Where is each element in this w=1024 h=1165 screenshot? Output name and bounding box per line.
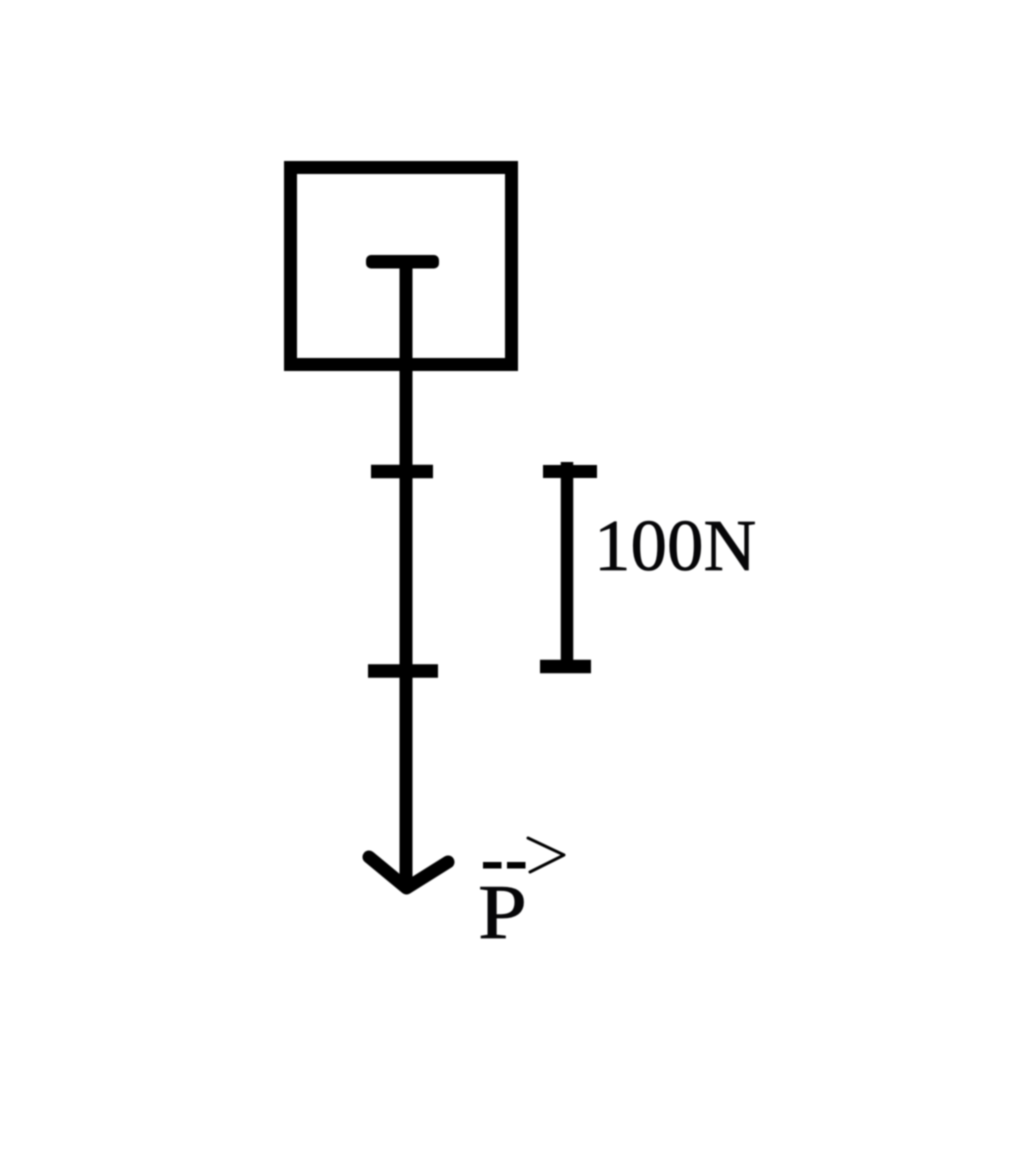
- tick mark 2: [368, 664, 438, 678]
- vector dash 2 over P: [507, 862, 526, 869]
- vector arrow tip over P: [528, 838, 564, 872]
- tick mark 1: [371, 465, 433, 479]
- string (vertical shaft): [400, 262, 413, 886]
- scale bar bottom cap: [540, 660, 591, 674]
- arrowhead: [369, 857, 448, 888]
- scale bar top cap: [543, 465, 597, 478]
- box (mass block): [291, 168, 512, 365]
- svg-text:100N: 100N: [594, 505, 756, 586]
- hook bar inside box: [366, 255, 439, 269]
- svg-text:P: P: [478, 869, 527, 955]
- vector dash 1 over P: [483, 862, 502, 869]
- scale bar vertical line: [561, 462, 574, 667]
